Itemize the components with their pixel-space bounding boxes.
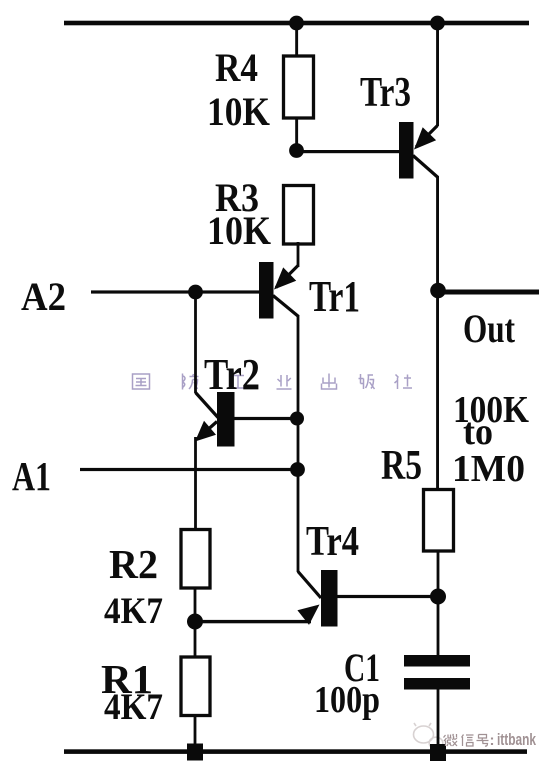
watermark 社 (395, 375, 413, 390)
svg-text:to: to (463, 411, 493, 453)
node dot A2 (188, 285, 203, 300)
svg-text:10K: 10K (207, 89, 270, 134)
node dot top rail right (430, 16, 445, 31)
wire node to R1 (194, 621, 197, 656)
watermark 业 (277, 375, 292, 389)
resistor R4 (284, 56, 314, 118)
svg-text:Tr3: Tr3 (360, 70, 411, 116)
watermark 信 (462, 735, 474, 747)
resistor R1 (181, 657, 210, 716)
svg-text:100p: 100p (314, 679, 380, 721)
svg-text:A2: A2 (21, 274, 66, 319)
wire node to C1 (437, 596, 440, 655)
wire input A1 (80, 468, 298, 471)
transistor Tr3 collector diagonal (413, 156, 438, 178)
wire C1 to bottom rail (437, 689, 440, 752)
watermark 国 (133, 374, 150, 389)
node dot R4/R3/Tr3-base (289, 143, 304, 158)
bottom rail (64, 749, 527, 754)
wire Tr3 base lead (297, 150, 400, 153)
transistor Tr3 base bar (399, 122, 414, 179)
wire A2 node down to Tr2 (194, 292, 197, 393)
svg-text:A1: A1 (12, 453, 51, 499)
svg-text::: : (490, 732, 495, 749)
transistor Tr4 emitter arrow (297, 605, 319, 625)
resistor R5 (424, 490, 454, 552)
svg-text:R4: R4 (215, 45, 258, 90)
node dot R5/Tr4 base (430, 589, 446, 605)
svg-text:Tr2: Tr2 (204, 350, 260, 399)
node dot Tr2 base / collector line (290, 412, 304, 426)
transistor Tr3 emitter arrow (414, 127, 436, 149)
transistor Tr1 base bar (259, 262, 274, 319)
watermark 工 (231, 376, 246, 389)
wire top rail to Tr3 emitter (436, 23, 439, 126)
wire Tr3 collector down to R5 (436, 176, 439, 490)
watermark 防 (183, 374, 199, 390)
watermark 号 (477, 735, 489, 747)
wire top rail to R4 (295, 23, 298, 57)
wechat icon (414, 723, 443, 749)
transistor Tr2 emitter arrow (195, 421, 216, 442)
wire Tr2 emitter down to R2 (194, 437, 197, 529)
watermark 版 (359, 374, 375, 389)
svg-text:4K7: 4K7 (104, 687, 163, 728)
wire Tr4 collector diagonal (298, 572, 321, 599)
node dot R2/Tr4 emitter (187, 614, 203, 630)
transistor Tr1 emitter diagonal (276, 266, 298, 288)
wire R3 to Tr1 emitter (297, 242, 300, 267)
svg-text:R2: R2 (109, 541, 158, 587)
svg-text:R5: R5 (381, 443, 422, 489)
svg-text:ittbank: ittbank (497, 731, 537, 749)
svg-text:Tr4: Tr4 (306, 519, 359, 565)
resistor R3 (284, 186, 314, 245)
wire Tr4 emitter lead (195, 620, 311, 623)
wire input A2 (91, 290, 259, 293)
svg-text:Tr1: Tr1 (309, 272, 360, 321)
transistor Tr4 base bar (321, 570, 338, 627)
transistor Tr1 collector diagonal (273, 296, 299, 317)
transistor Tr3 emitter diagonal (416, 126, 438, 148)
watermark 出 (322, 374, 337, 390)
wire R5 to node (437, 550, 440, 598)
transistor Tr1 emitter arrow (274, 267, 296, 289)
transistor Tr2 base bar (217, 392, 235, 447)
watermark 微 (444, 734, 458, 746)
transistor Tr2 base lead (234, 417, 297, 420)
svg-text:4K7: 4K7 (104, 591, 163, 632)
wire Tr1 collector down to Tr4 (297, 315, 300, 572)
node dot top rail left (289, 16, 304, 31)
node dot A1 (290, 462, 305, 477)
wire R4 to node (295, 117, 298, 152)
top rail (64, 21, 529, 26)
node dot Out (430, 283, 446, 299)
svg-text:Out: Out (463, 306, 516, 351)
capacitor C1 top plate (404, 655, 470, 667)
transistor Tr2 collector diagonal (196, 393, 219, 418)
transistor Tr2 emitter diagonal (200, 422, 217, 437)
wire Out (438, 290, 539, 295)
resistor R2 (181, 530, 210, 589)
node dot bottom rail right (430, 744, 446, 761)
capacitor C1 bottom plate (404, 678, 470, 690)
wire R1 to bottom rail (194, 715, 197, 752)
svg-text:1M0: 1M0 (452, 448, 525, 490)
wire R2 to node (194, 588, 197, 622)
svg-text:10K: 10K (207, 208, 271, 253)
transistor Tr4 base lead (337, 595, 438, 598)
node dot bottom rail left (187, 744, 203, 761)
